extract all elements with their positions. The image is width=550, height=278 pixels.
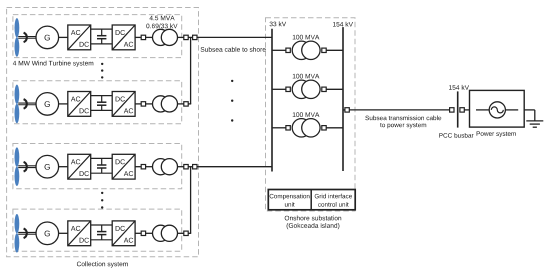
DC link capacitor WT1 bbox=[97, 29, 106, 44]
wire breaker to feeder junction WT3 bbox=[188, 166, 192, 168]
wire power system box to ground bbox=[524, 110, 535, 121]
breaker switch 154 kV side T1 bbox=[322, 48, 326, 52]
generator G WT4 bbox=[36, 222, 59, 245]
wire DC/AC converter to breaker WT3 bbox=[135, 166, 141, 168]
wire breaker to 154 kV bus T1 bbox=[326, 49, 343, 51]
wire into AC source bbox=[476, 109, 489, 111]
AC/DC converter WT2 bbox=[68, 92, 91, 117]
breaker switch at converter output WT3 bbox=[141, 165, 145, 169]
wire generator to AC/DC converter WT3 bbox=[59, 166, 68, 168]
wire breaker to collection bus WT4 bbox=[188, 232, 191, 234]
power system box bbox=[470, 90, 525, 127]
subsea transmission cable wire bbox=[349, 109, 449, 111]
label 0.69/33 kV bbox=[146, 23, 177, 28]
wire transformer to breaker WT2 bbox=[178, 103, 184, 105]
wire generator to AC/DC converter WT2 bbox=[59, 103, 68, 105]
label 154 kV PCC bbox=[449, 85, 469, 90]
label Power system bbox=[477, 131, 516, 137]
label 33 kV bbox=[270, 21, 287, 26]
turbine transformer 0.69/33 kV WT2 bbox=[153, 96, 178, 112]
wire breaker to collection bus WT2 bbox=[188, 103, 191, 105]
turbine shaft WT4 bbox=[18, 229, 36, 239]
wire DC/AC converter to breaker WT2 bbox=[135, 103, 141, 105]
label 154 kV substation bbox=[333, 22, 353, 27]
breaker switch at transformer output WT3 bbox=[184, 165, 188, 169]
breaker switch at converter output WT4 bbox=[141, 231, 145, 235]
label Subsea transmission cable to power system bbox=[365, 116, 441, 129]
collection system outer dashed boundary bbox=[7, 8, 199, 257]
turbine shaft WT2 bbox=[18, 99, 36, 109]
wire breaker to 154 kV bus T3 bbox=[326, 127, 343, 129]
grid interface control unit box bbox=[311, 190, 352, 210]
ellipsis dots between feeder cables bbox=[231, 80, 233, 122]
label Collection system bbox=[77, 261, 128, 267]
wire breaker to transformer WT3 bbox=[146, 166, 153, 168]
label 4 MW Wind Turbine system bbox=[13, 61, 93, 67]
wire transformer to breaker WT3 bbox=[178, 166, 184, 168]
AC voltage source power grid bbox=[489, 102, 505, 118]
wire AC source to box edge bbox=[505, 109, 518, 111]
breaker switch at transformer output WT4 bbox=[184, 231, 188, 235]
turbine shaft WT1 bbox=[18, 33, 36, 43]
AC/DC converter WT1 bbox=[68, 25, 91, 50]
breaker switch 33 kV side T1 bbox=[286, 48, 290, 52]
label Onshore substation (Gokceada island) bbox=[285, 216, 342, 230]
DC link capacitor WT4 bbox=[97, 225, 106, 240]
ellipsis dots between WT1 and WT2 bbox=[101, 63, 103, 79]
generator G WT2 bbox=[36, 93, 59, 116]
generator G WT1 bbox=[36, 26, 59, 49]
wind turbine system 4 dashed box bbox=[13, 209, 182, 251]
breaker switch at converter output WT2 bbox=[141, 102, 145, 106]
154 kV busbar bbox=[342, 27, 344, 171]
feeder breaker switch WT3 bbox=[193, 165, 197, 169]
onshore substation dashed boundary bbox=[266, 18, 356, 211]
wind turbine system 1 dashed box bbox=[13, 15, 182, 58]
wind turbine system 3 dashed box bbox=[13, 144, 182, 189]
DC link wires WT3 bbox=[91, 158, 113, 173]
collection feeder bus WT1-WT2 bbox=[190, 37, 192, 104]
wire breaker to transformer WT4 bbox=[146, 232, 153, 234]
feeder cable to 33 kV busbar WT3 bbox=[197, 166, 272, 168]
wire generator to AC/DC converter WT4 bbox=[59, 232, 68, 234]
DC link capacitor WT3 bbox=[97, 158, 106, 173]
AC/DC converter WT3 bbox=[68, 154, 91, 179]
DC/AC converter WT2 bbox=[112, 92, 135, 117]
wind turbine rotor blades WT2 bbox=[15, 85, 20, 124]
wire 33 kV bus to breaker T2 bbox=[272, 88, 286, 90]
compensation unit box bbox=[268, 190, 355, 210]
wind turbine rotor blades WT3 bbox=[15, 147, 20, 186]
33 kV busbar bbox=[271, 29, 273, 172]
label 100 MVA transformer T3 bbox=[293, 112, 320, 117]
wire 33 kV bus to breaker T1 bbox=[272, 49, 286, 51]
breaker switch 33 kV side T3 bbox=[286, 126, 290, 130]
wire DC/AC converter to breaker WT4 bbox=[135, 232, 141, 234]
breaker switch PCC to power system bbox=[460, 108, 464, 112]
wire breaker to transformer WT2 bbox=[146, 103, 153, 105]
generator G WT3 bbox=[36, 155, 59, 178]
breaker switch at PCC bbox=[450, 108, 454, 112]
substation transformer 100 MVA T2 bbox=[292, 80, 320, 98]
wire breaker to transformer WT1 bbox=[146, 36, 153, 38]
breaker switch 154 kV side T2 bbox=[322, 87, 326, 91]
turbine transformer 0.69/33 kV WT4 bbox=[153, 225, 178, 241]
ground symbol bbox=[526, 121, 543, 127]
wire DC/AC converter to breaker WT1 bbox=[135, 36, 141, 38]
DC/AC converter WT4 bbox=[112, 221, 135, 246]
DC/AC converter WT3 bbox=[112, 154, 135, 179]
wire breaker to 154 kV bus T2 bbox=[326, 88, 343, 90]
breaker switch 154 kV side T3 bbox=[322, 126, 326, 130]
turbine transformer 0.69/33 kV WT1 bbox=[153, 29, 178, 45]
DC link wires WT2 bbox=[91, 96, 113, 111]
substation transformer 100 MVA T3 bbox=[292, 119, 320, 137]
DC/AC converter WT1 bbox=[112, 25, 135, 50]
wind turbine rotor blades WT1 bbox=[15, 18, 20, 57]
turbine shaft WT3 bbox=[18, 162, 36, 172]
label 100 MVA transformer T2 bbox=[293, 74, 320, 79]
ellipsis dots between WT3 and WT4 bbox=[101, 192, 103, 209]
AC/DC converter WT4 bbox=[68, 221, 91, 246]
wire 154 kV bus to transmission breaker bbox=[343, 109, 345, 111]
breaker switch at transformer output WT2 bbox=[184, 102, 188, 106]
wire PCC to power system box bbox=[464, 109, 469, 111]
label 100 MVA transformer T1 bbox=[293, 35, 320, 40]
label 4.5 MVA bbox=[150, 16, 175, 21]
breaker switch at transformer output WT1 bbox=[184, 35, 188, 39]
breaker switch at converter output WT1 bbox=[141, 35, 145, 39]
DC link wires WT4 bbox=[91, 225, 113, 240]
wind turbine rotor blades WT4 bbox=[15, 214, 20, 253]
wire generator to AC/DC converter WT1 bbox=[59, 36, 68, 38]
PCC busbar bbox=[457, 91, 459, 127]
wire transformer to breaker WT4 bbox=[178, 232, 184, 234]
turbine transformer 0.69/33 kV WT3 bbox=[153, 159, 178, 175]
DC link wires WT1 bbox=[91, 29, 113, 44]
wire breaker to feeder junction WT1 bbox=[188, 36, 192, 38]
wire 33 kV bus to breaker T3 bbox=[272, 127, 286, 129]
substation transformer 100 MVA T1 bbox=[292, 41, 320, 59]
collection feeder bus WT3-WT4 bbox=[190, 167, 192, 234]
wire transformer to breaker WT1 bbox=[178, 36, 184, 38]
breaker switch 33 kV side T2 bbox=[286, 87, 290, 91]
feeder cable to 33 kV busbar WT1 bbox=[197, 36, 272, 38]
DC link capacitor WT2 bbox=[97, 96, 106, 111]
label PCC busbar bbox=[439, 133, 473, 138]
wind turbine system 2 dashed box bbox=[13, 81, 182, 124]
label Subsea cable to shore bbox=[201, 47, 266, 52]
transmission breaker switch at 154 kV bus bbox=[345, 108, 349, 112]
feeder breaker switch WT1 bbox=[193, 35, 197, 39]
